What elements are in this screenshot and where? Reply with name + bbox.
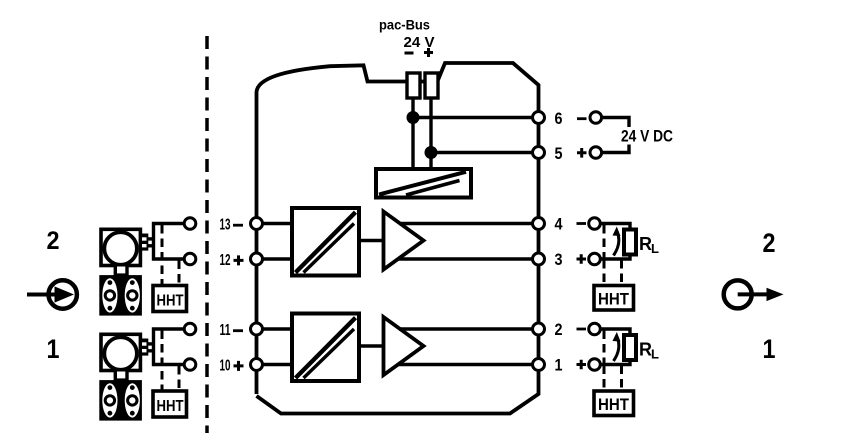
fuse F1 xyxy=(407,73,420,98)
node external 4 xyxy=(589,218,601,230)
terminal 13 xyxy=(251,218,263,230)
node field circle 13 xyxy=(184,218,196,230)
wire external 1 to load xyxy=(600,360,630,365)
wire terminal 11 to isolator xyxy=(257,327,293,330)
wire external 4 to load xyxy=(600,224,630,231)
wire amplifier to terminal 1 xyxy=(398,363,539,366)
node field circle 10 xyxy=(184,359,196,371)
device outline xyxy=(257,63,539,414)
terminal 12 xyxy=(251,253,263,265)
svg-text:10: 10 xyxy=(220,358,231,375)
label minus (terminal 6 external) xyxy=(577,117,587,120)
wire bracket (channel II) xyxy=(154,224,185,260)
svg-text:HHT: HHT xyxy=(598,395,630,414)
terminal 4 xyxy=(533,218,545,230)
transmitter P2 (channel II) xyxy=(99,229,148,315)
svg-text:6: 6 xyxy=(555,109,563,128)
wire external 2 to load xyxy=(600,329,630,336)
label plus (bus) xyxy=(424,48,433,57)
arrow loop current (channel I) xyxy=(614,337,619,361)
svg-text:1: 1 xyxy=(47,334,60,364)
wire transmitter stub bottom (channel I) xyxy=(148,349,154,352)
wire external 5 to supply xyxy=(602,145,629,153)
label plus (terminal 5 external) xyxy=(577,148,587,158)
wire external 3 to load xyxy=(600,254,630,259)
svg-text:13: 13 xyxy=(220,217,231,234)
separator dashed line xyxy=(205,36,209,433)
node external 2 xyxy=(589,323,601,335)
HHT box (channel II right) xyxy=(594,286,634,311)
wire fuse F2 to node xyxy=(429,98,432,169)
resistor RL (channel II) xyxy=(624,230,636,255)
dashed wire to HHT left (channel I) xyxy=(603,366,606,392)
dashed wire to HHT left (channel II) xyxy=(603,260,606,286)
wire transmitter stub top (channel I) xyxy=(148,342,154,345)
wire isolator to amplifier (channel II) xyxy=(359,239,384,242)
label plus (terminal 1 external) xyxy=(577,360,587,370)
label plus 10 xyxy=(234,361,244,371)
svg-text:11: 11 xyxy=(220,322,231,339)
HHT box (channel I right) xyxy=(594,391,634,416)
svg-text:HHT: HHT xyxy=(598,290,630,309)
wire node to terminal 6 xyxy=(413,116,539,119)
terminal 2 xyxy=(533,323,545,335)
dashed link HHT (channel II) xyxy=(603,225,606,259)
terminal 1 xyxy=(533,359,545,371)
fuse F2 xyxy=(425,73,438,98)
wire terminal 10 to isolator xyxy=(257,363,293,366)
svg-text:L: L xyxy=(651,347,659,362)
wire terminal 13 to isolator xyxy=(257,222,293,225)
label plus (terminal 3 external) xyxy=(577,254,587,264)
svg-text:L: L xyxy=(651,241,659,256)
arrow input (left) xyxy=(27,280,77,308)
svg-text:12: 12 xyxy=(220,252,231,269)
svg-text:pac-Bus: pac-Bus xyxy=(379,17,430,33)
terminal 6 xyxy=(533,112,545,124)
node junction plus xyxy=(425,146,438,159)
wire amplifier to terminal 2 xyxy=(399,327,539,330)
dashed wire to HHT right (channel I field) xyxy=(178,366,181,391)
wire isolator to amplifier (channel I) xyxy=(359,344,384,347)
node external 6 xyxy=(590,112,602,124)
wire bracket (channel I) xyxy=(154,329,185,365)
terminal 3 xyxy=(533,253,545,265)
svg-text:2: 2 xyxy=(47,227,60,255)
resistor RL (channel I) xyxy=(624,335,636,360)
svg-text:1: 1 xyxy=(763,334,776,364)
svg-text:HHT: HHT xyxy=(157,293,184,310)
label minus (bus) xyxy=(405,52,414,55)
node external 1 xyxy=(589,359,601,371)
svg-text:HHT: HHT xyxy=(157,398,184,415)
wire amplifier to terminal 3 xyxy=(398,257,539,260)
label minus 11 xyxy=(233,329,243,332)
label plus 12 xyxy=(234,255,244,265)
node external 5 xyxy=(590,147,602,159)
wire fuse F1 to node xyxy=(411,98,414,169)
svg-text:4: 4 xyxy=(555,215,563,234)
wire transmitter stub top (channel II) xyxy=(148,237,154,240)
node field circle 11 xyxy=(184,323,196,335)
terminal 5 xyxy=(533,147,545,159)
wire amplifier to terminal 4 xyxy=(399,222,539,225)
svg-text:2: 2 xyxy=(763,228,776,258)
label minus (terminal 2 external) xyxy=(577,328,587,331)
arrow output (right) xyxy=(724,280,784,308)
dashed wire to HHT right (channel II field) xyxy=(178,261,181,286)
terminal 10 xyxy=(251,359,263,371)
label minus (terminal 4 external) xyxy=(577,222,587,225)
isolator U1 (channel II) xyxy=(292,208,359,276)
power supply U3 xyxy=(376,169,471,198)
op-amp A1 (channel II) xyxy=(384,212,424,270)
arrow loop current (channel II) xyxy=(614,232,619,256)
label minus 13 xyxy=(233,224,243,227)
node field circle 12 xyxy=(184,253,196,265)
node junction minus xyxy=(407,111,420,124)
wire external 6 to supply xyxy=(602,118,629,128)
svg-text:2: 2 xyxy=(555,320,563,339)
dashed link HHT (channel I) xyxy=(603,331,606,365)
dashed wire to HHT right (channel I) xyxy=(620,366,623,392)
dashed wire to HHT left (channel II field) xyxy=(161,225,164,286)
wire transmitter stub bottom (channel II) xyxy=(148,244,154,247)
wire terminal 12 to isolator xyxy=(257,257,293,260)
op-amp A2 (channel I) xyxy=(384,317,424,375)
node external 3 xyxy=(589,253,601,265)
terminal 11 xyxy=(251,323,263,335)
dashed wire to HHT right (channel II) xyxy=(620,260,623,286)
HHT box (channel II left) xyxy=(153,286,187,312)
svg-text:5: 5 xyxy=(555,144,563,163)
wire node to terminal 5 xyxy=(431,151,539,154)
transmitter P1 (channel I) xyxy=(99,334,148,420)
HHT box (channel I left) xyxy=(153,391,187,417)
dashed wire to HHT left (channel I field) xyxy=(161,331,164,392)
svg-text:3: 3 xyxy=(555,250,563,269)
isolator U2 (channel I) xyxy=(292,314,359,382)
svg-text:24 V DC: 24 V DC xyxy=(621,127,673,146)
svg-text:1: 1 xyxy=(555,356,563,375)
